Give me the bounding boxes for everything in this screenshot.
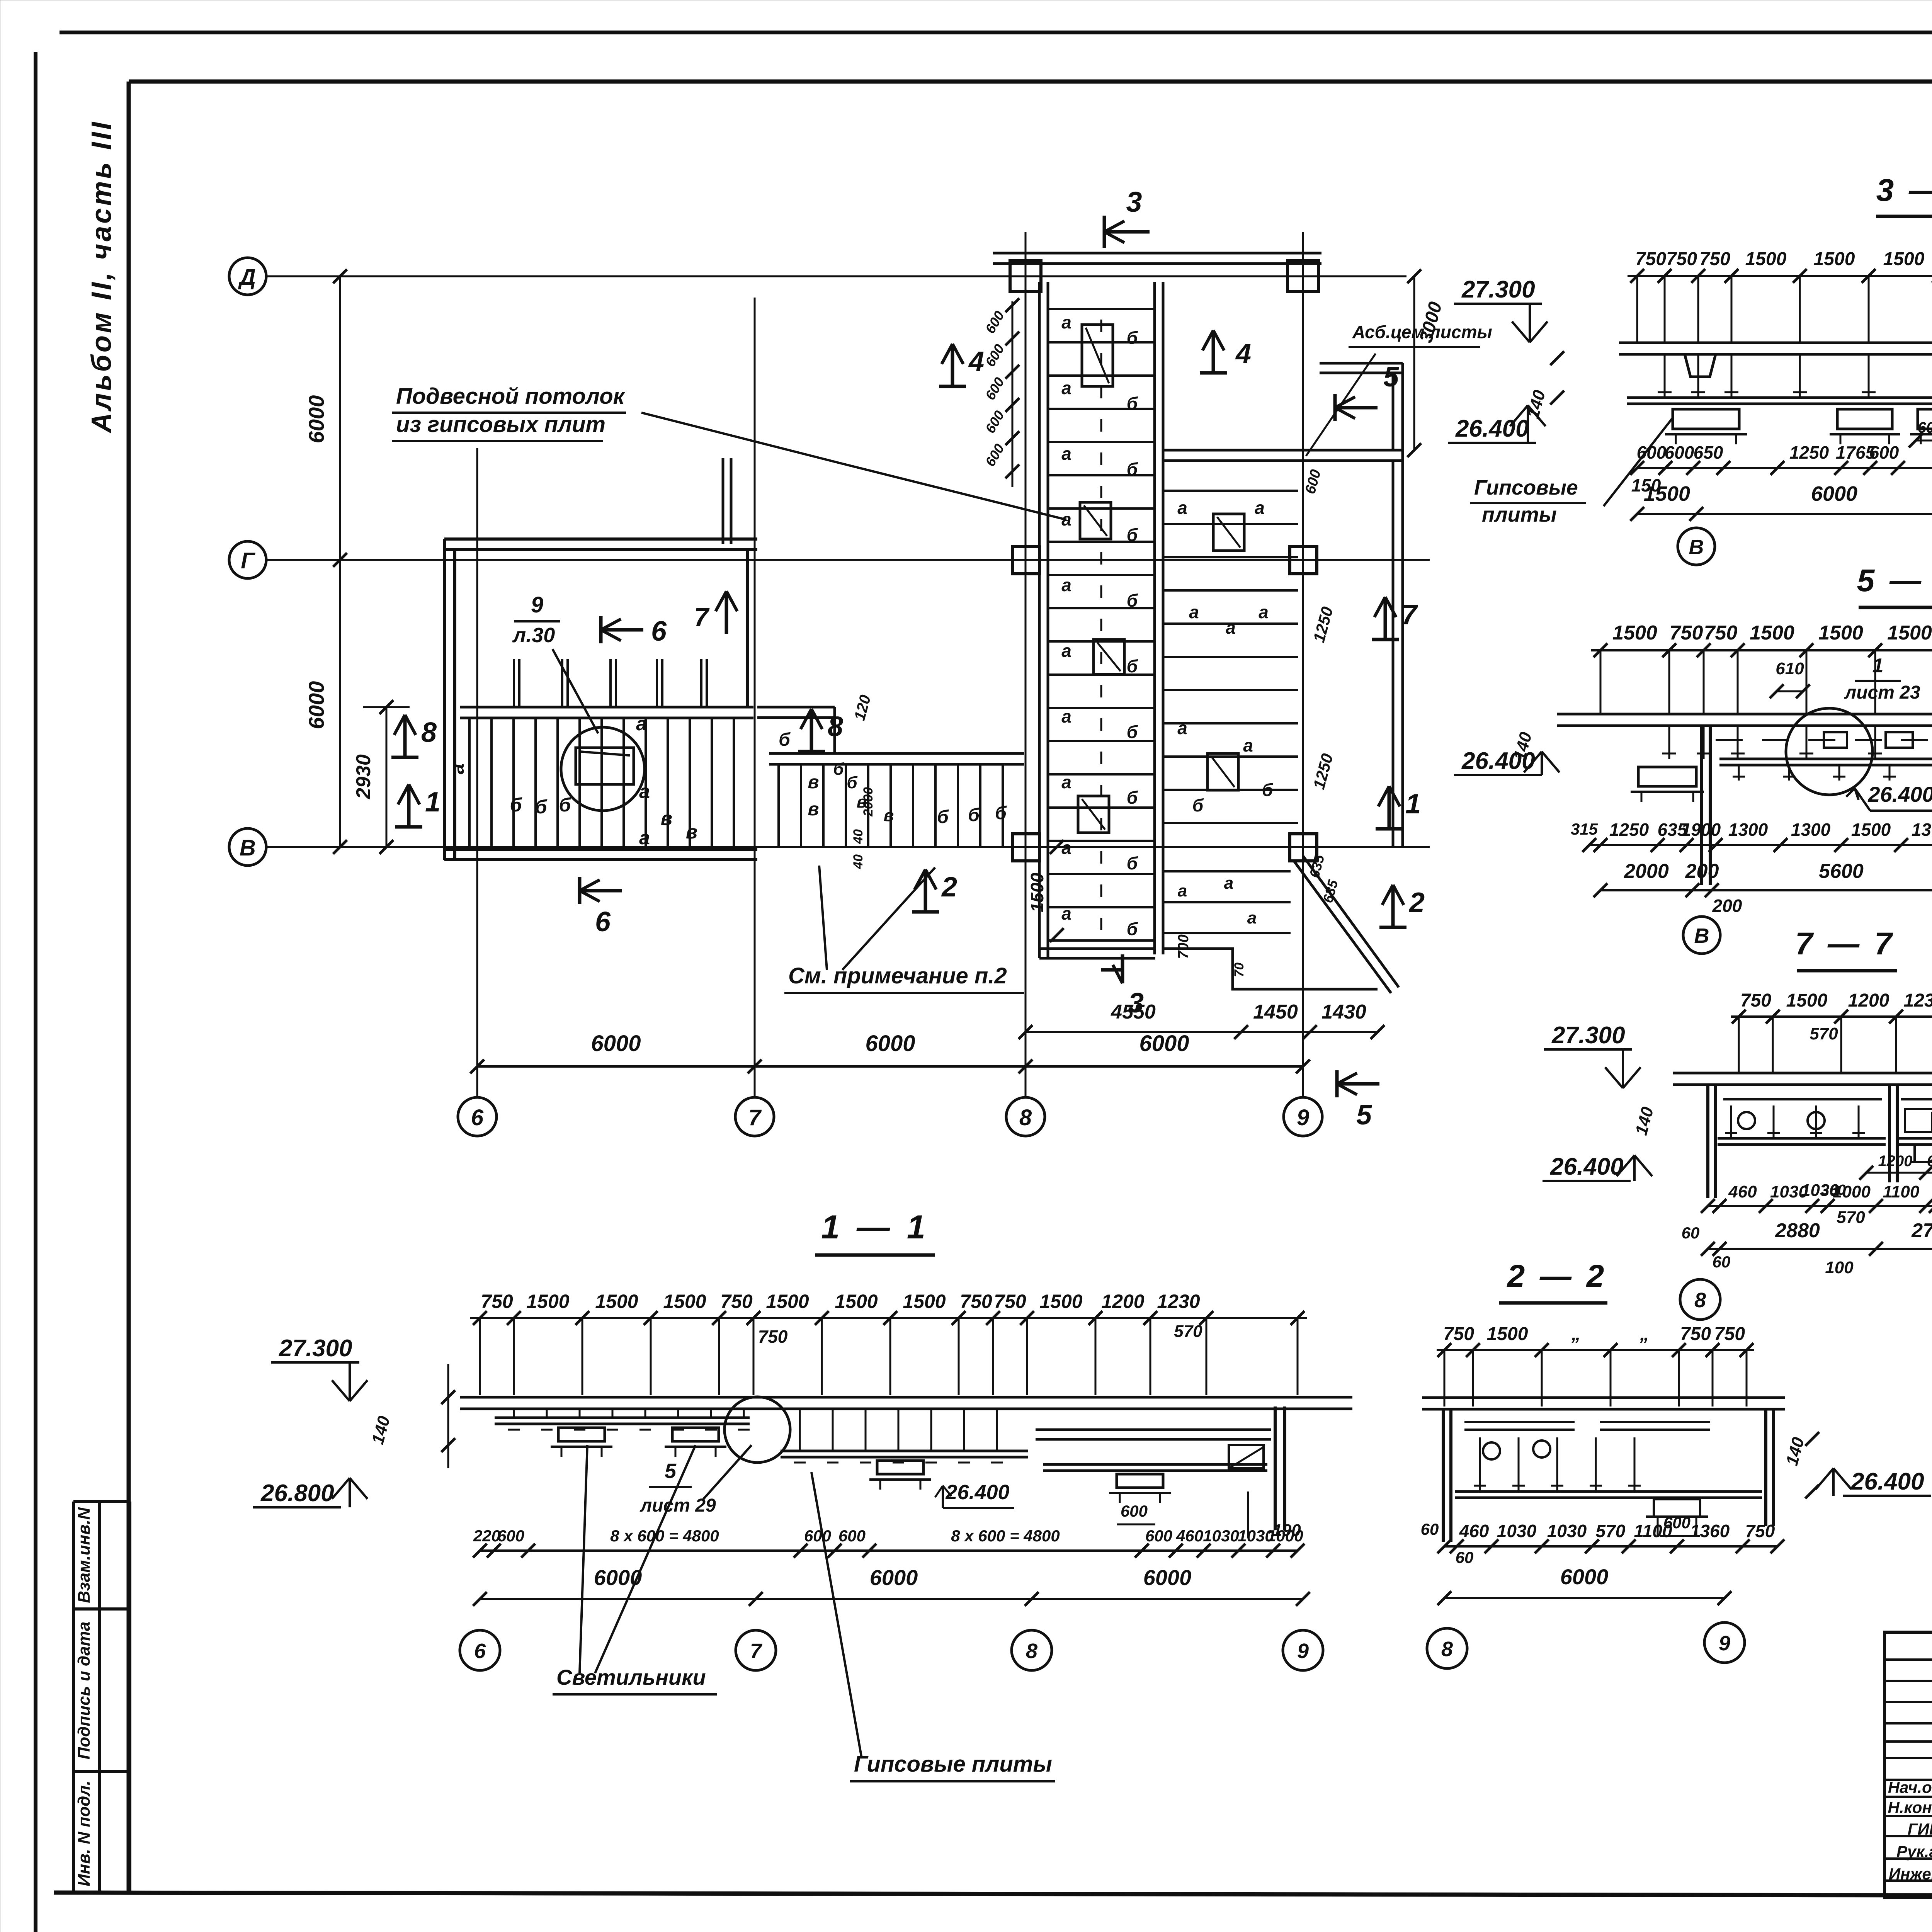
section 5-5 bottom chain 1 <box>1589 844 1932 846</box>
svg-text:Гипсовые плиты: Гипсовые плиты <box>854 1752 1052 1777</box>
middle band step wall <box>757 706 835 709</box>
svg-text:б: б <box>847 773 858 792</box>
section 3-3 top dim chain <box>1628 275 1932 277</box>
svg-text:а: а <box>1061 378 1071 398</box>
section 5-5 dim 610 <box>1777 690 1803 692</box>
svg-text:1230: 1230 <box>1904 990 1932 1011</box>
svg-text:В: В <box>1689 536 1704 559</box>
svg-text:26.400: 26.400 <box>1867 782 1932 806</box>
svg-text:3: 3 <box>1126 186 1142 218</box>
svg-text:а: а <box>1061 903 1071 923</box>
svg-text:а: а <box>1177 498 1187 518</box>
svg-text:750: 750 <box>1443 1324 1474 1344</box>
section 7-7 left wall <box>1706 1085 1709 1198</box>
svg-text:600: 600 <box>838 1527 866 1545</box>
svg-text:750: 750 <box>1704 622 1738 644</box>
axis circle 7 <box>735 1097 774 1136</box>
column at D8 <box>1010 261 1041 292</box>
svg-text:б: б <box>937 807 949 827</box>
svg-text:5: 5 <box>1383 362 1399 393</box>
svg-text:750: 750 <box>960 1291 992 1312</box>
svg-text:5600: 5600 <box>1819 860 1864 883</box>
svg-text:200: 200 <box>1712 896 1742 916</box>
svg-text:6000: 6000 <box>304 395 328 444</box>
svg-text:2: 2 <box>941 872 957 903</box>
section 5-5 upper ceiling dashed <box>1716 739 1743 741</box>
svg-text:1430: 1430 <box>1321 1001 1366 1023</box>
axis V line <box>266 846 1430 848</box>
left room ceiling band top lines <box>460 706 753 709</box>
svg-text:750: 750 <box>758 1327 788 1347</box>
section 3-3 bottom chain 2 <box>1637 513 1932 515</box>
svg-text:1500: 1500 <box>1851 820 1891 840</box>
svg-text:в: в <box>686 821 697 843</box>
svg-text:а: а <box>1061 312 1071 332</box>
svg-text:7: 7 <box>750 1639 763 1663</box>
section mark 4 left <box>939 385 966 388</box>
section mark 8 left <box>391 756 418 759</box>
svg-text:1200: 1200 <box>1848 990 1889 1011</box>
svg-text:а: а <box>1061 838 1071 858</box>
right strip ladder <box>1048 308 1155 310</box>
svg-text:а: а <box>639 781 650 802</box>
svg-text:Инженер: Инженер <box>1889 1865 1932 1883</box>
section 3-3 slab <box>1619 342 1932 344</box>
svg-text:1450: 1450 <box>1253 1001 1298 1023</box>
svg-text:а: а <box>1243 735 1253 755</box>
svg-text:5: 5 <box>1356 1100 1372 1131</box>
svg-text:460: 460 <box>1176 1527 1203 1545</box>
section mark 1 right <box>1376 827 1403 831</box>
svg-text:9: 9 <box>531 592 543 617</box>
column at V8 <box>1012 834 1039 861</box>
svg-text:7 — 7: 7 — 7 <box>1795 926 1895 961</box>
svg-text:а: а <box>1177 718 1187 738</box>
section 5-5 top boxes <box>1824 732 1847 748</box>
svg-text:27.300: 27.300 <box>279 1335 352 1362</box>
section 5-5 wall V <box>1700 726 1703 885</box>
svg-text:9: 9 <box>1297 1105 1309 1130</box>
plan bottom dim chain 6000x3 <box>477 1065 1303 1068</box>
svg-text:26.400: 26.400 <box>945 1481 1009 1504</box>
svg-text:700: 700 <box>1175 934 1192 959</box>
section 1-1 left vertical dim <box>447 1364 449 1468</box>
svg-text:Рук.гр.: Рук.гр. <box>1896 1842 1932 1861</box>
svg-text:600: 600 <box>1665 442 1694 463</box>
svg-text:9: 9 <box>1719 1632 1730 1655</box>
section 5-5 detail circle <box>1786 708 1872 795</box>
svg-text:360: 360 <box>1821 1182 1845 1198</box>
section 1-1 far right ceiling <box>1036 1429 1271 1431</box>
section 3-3 ceiling <box>1627 396 1932 399</box>
svg-text:1500: 1500 <box>835 1291 878 1312</box>
svg-text:27.300: 27.300 <box>1551 1022 1625 1049</box>
svg-text:9: 9 <box>1297 1639 1309 1663</box>
upper right step wall <box>1320 362 1403 365</box>
right strip left wall <box>1038 282 1041 958</box>
svg-text:600: 600 <box>1145 1527 1172 1545</box>
section 3-3 bottom chain 1 <box>1637 467 1932 469</box>
section 5-5 slab <box>1557 713 1932 716</box>
section 1-1 extension lines <box>479 1318 481 1395</box>
svg-text:1030: 1030 <box>1547 1521 1587 1541</box>
middle band top line <box>769 752 1024 755</box>
section 2-2 center fixture <box>1654 1499 1700 1517</box>
svg-text:1500: 1500 <box>1612 622 1657 644</box>
svg-text:б: б <box>535 796 548 818</box>
svg-text:750: 750 <box>1666 249 1697 269</box>
right room top wall <box>1163 449 1403 452</box>
svg-text:1500: 1500 <box>526 1291 569 1312</box>
section 1-1 left ceiling <box>495 1417 750 1419</box>
svg-text:ГИП: ГИП <box>1908 1820 1932 1838</box>
svg-text:Нач.отд.: Нач.отд. <box>1888 1778 1932 1796</box>
svg-text:3 — 3: 3 — 3 <box>1876 173 1932 208</box>
svg-text:570: 570 <box>1837 1208 1865 1227</box>
svg-text:60: 60 <box>1713 1253 1731 1271</box>
svg-text:6000: 6000 <box>1143 1565 1192 1590</box>
section 3-3 hangers <box>1664 354 1666 398</box>
axis 9 line <box>1302 232 1304 1097</box>
svg-text:60: 60 <box>1456 1548 1474 1566</box>
section 3-3 light boxes <box>1673 409 1739 429</box>
svg-text:6000: 6000 <box>1560 1565 1609 1589</box>
svg-text:в: в <box>808 799 819 820</box>
section 1-1 detail circle <box>724 1397 790 1463</box>
section mark 5 right <box>1333 394 1337 421</box>
section mark 8 mid <box>798 750 825 753</box>
svg-text:7: 7 <box>748 1105 762 1130</box>
svg-text:6000: 6000 <box>1811 482 1857 505</box>
svg-text:1500: 1500 <box>1745 249 1787 269</box>
svg-text:1300: 1300 <box>1728 820 1768 840</box>
leader to ceiling <box>641 413 842 464</box>
axis D line <box>266 276 1406 277</box>
section 2-2 ceiling <box>1455 1490 1762 1493</box>
section 7-7 mini dims 1200 600 <box>1866 1172 1932 1174</box>
section 1-1 right ceiling <box>781 1450 1028 1452</box>
svg-text:200: 200 <box>1685 860 1719 883</box>
svg-text:6: 6 <box>471 1105 484 1130</box>
svg-text:150: 150 <box>1631 475 1661 495</box>
svg-text:190: 190 <box>1272 1521 1301 1540</box>
right room fixtures <box>1213 514 1244 551</box>
column at G8 <box>1012 547 1039 574</box>
svg-text:1500: 1500 <box>1883 249 1925 269</box>
svg-text:1500: 1500 <box>1814 249 1855 269</box>
svg-text:2880: 2880 <box>1775 1219 1820 1242</box>
svg-text:7: 7 <box>694 602 710 632</box>
svg-text:27.300: 27.300 <box>1461 276 1535 303</box>
svg-text:1500: 1500 <box>1818 622 1863 644</box>
svg-text:б: б <box>833 760 844 779</box>
svg-text:2770: 2770 <box>1911 1219 1932 1242</box>
svg-text:750: 750 <box>1670 622 1703 644</box>
svg-text:Альбом II, часть III: Альбом II, часть III <box>86 120 117 434</box>
svg-text:в: в <box>661 808 672 829</box>
svg-text:6: 6 <box>595 906 611 937</box>
svg-text:б: б <box>1127 656 1138 676</box>
section 2-2 holes <box>1483 1442 1500 1459</box>
section 2-2 top dim chain <box>1437 1349 1754 1351</box>
svg-text:в: в <box>884 806 894 825</box>
svg-text:2930: 2930 <box>352 754 375 799</box>
section mark 3 bottom <box>1121 954 1124 983</box>
svg-text:1030: 1030 <box>1203 1527 1239 1545</box>
svg-text:б: б <box>1127 787 1138 808</box>
column at G9 <box>1290 547 1317 574</box>
svg-text:1: 1 <box>1872 655 1884 677</box>
svg-text:Гипсовые: Гипсовые <box>1474 476 1578 499</box>
svg-text:750: 750 <box>481 1291 513 1312</box>
axis 8 line <box>1025 232 1027 1097</box>
svg-text:6000: 6000 <box>304 681 328 730</box>
svg-text:8 х 600 = 4800: 8 х 600 = 4800 <box>610 1527 719 1545</box>
svg-text:1500: 1500 <box>595 1291 638 1312</box>
left room bottom wall on axis V <box>444 848 757 851</box>
svg-text:Асб.цем.листы: Асб.цем.листы <box>1352 322 1492 342</box>
section 5-5 bottom chain 2 <box>1600 889 1932 891</box>
svg-text:б: б <box>1262 780 1274 800</box>
section 7-7 hatch box <box>1915 1145 1932 1162</box>
svg-text:б: б <box>1192 795 1204 815</box>
svg-text:1500: 1500 <box>1027 872 1047 912</box>
svg-text:Инв. N подл.: Инв. N подл. <box>75 1781 94 1886</box>
section mark 6 upper <box>599 616 603 643</box>
svg-text:2 — 2: 2 — 2 <box>1507 1259 1607 1294</box>
svg-text:1360: 1360 <box>1690 1521 1730 1541</box>
drawing frame <box>127 82 131 1893</box>
svg-text:650: 650 <box>1694 442 1723 463</box>
section 7-7 slab <box>1673 1072 1932 1075</box>
axis G circle <box>229 541 266 578</box>
svg-text:1030: 1030 <box>1497 1521 1537 1541</box>
svg-text:1200: 1200 <box>1878 1153 1913 1170</box>
svg-text:Подвесной потолок: Подвесной потолок <box>396 384 626 409</box>
svg-text:б: б <box>510 794 523 816</box>
svg-text:570: 570 <box>1174 1322 1202 1341</box>
dim 3000 right <box>1413 276 1415 450</box>
svg-text:б: б <box>1127 328 1138 348</box>
svg-text:750: 750 <box>1699 249 1730 269</box>
left room joists <box>468 718 471 847</box>
svg-text:6: 6 <box>474 1639 486 1663</box>
svg-text:б: б <box>779 730 791 750</box>
svg-text:750: 750 <box>1740 990 1771 1011</box>
section 2-2 axis circles <box>1427 1628 1467 1668</box>
svg-text:750: 750 <box>1745 1521 1775 1541</box>
svg-text:1300: 1300 <box>1912 820 1932 840</box>
section 7-7 axis circles <box>1680 1279 1720 1320</box>
left room top wall <box>444 537 757 541</box>
svg-text:26.800: 26.800 <box>260 1480 334 1507</box>
section mark 3 top <box>1103 216 1106 248</box>
svg-text:8: 8 <box>1441 1638 1453 1661</box>
svg-text:600: 600 <box>1927 1153 1932 1170</box>
svg-text:100: 100 <box>1825 1258 1854 1277</box>
svg-text:8: 8 <box>421 717 437 748</box>
svg-text:а: а <box>1061 706 1071 726</box>
plan sub dim 4550 1450 1430 <box>1026 1031 1378 1033</box>
svg-text:л.30: л.30 <box>512 624 555 647</box>
svg-text:в: в <box>808 772 819 793</box>
svg-text:1: 1 <box>425 787 440 818</box>
svg-text:лист 23: лист 23 <box>1844 682 1920 703</box>
svg-text:600: 600 <box>1121 1502 1148 1520</box>
svg-text:„: „ <box>1571 1324 1581 1344</box>
svg-text:610: 610 <box>1776 659 1804 678</box>
svg-text:а: а <box>1178 881 1187 900</box>
svg-text:1500: 1500 <box>1786 990 1828 1011</box>
section 2-2 left wall <box>1442 1409 1445 1542</box>
section 5-5 axis circles <box>1683 917 1720 954</box>
svg-text:Г: Г <box>241 548 255 573</box>
600 dim column <box>1012 301 1014 487</box>
svg-text:40: 40 <box>851 829 866 844</box>
section 2-2 bottom chain <box>1444 1545 1777 1548</box>
svg-text:6000: 6000 <box>1139 1031 1189 1056</box>
svg-text:2000: 2000 <box>1624 860 1669 883</box>
svg-text:750: 750 <box>1680 1324 1711 1344</box>
svg-text:а: а <box>636 713 647 735</box>
svg-text:2000: 2000 <box>861 787 876 817</box>
svg-text:4: 4 <box>968 346 984 377</box>
middle band joists <box>777 764 780 847</box>
section 3-3 mini dim 600 600 <box>1916 440 1932 442</box>
right strip right wall <box>1153 282 1156 954</box>
section mark 4 right <box>1200 371 1227 375</box>
svg-text:плиты: плиты <box>1482 503 1557 526</box>
svg-text:а: а <box>1061 641 1071 661</box>
svg-text:а: а <box>1061 575 1071 595</box>
svg-text:1100: 1100 <box>1883 1182 1920 1201</box>
svg-text:2: 2 <box>1408 887 1425 918</box>
svg-text:В: В <box>240 835 256 861</box>
svg-text:1500: 1500 <box>903 1291 946 1312</box>
section 1-1 slab <box>460 1396 1352 1399</box>
svg-text:600: 600 <box>1918 419 1932 436</box>
svg-text:1500: 1500 <box>766 1291 809 1312</box>
svg-text:460: 460 <box>1459 1521 1489 1541</box>
svg-text:1230: 1230 <box>1157 1291 1200 1312</box>
svg-text:а: а <box>1255 498 1265 518</box>
svg-text:„: „ <box>1639 1324 1649 1344</box>
section mark 6 lower <box>578 877 582 904</box>
section 1-1 bottom chain 1 <box>480 1549 1298 1552</box>
axis V circle <box>229 828 266 866</box>
right strip hanger dashes <box>1100 320 1102 332</box>
svg-text:5 — 5: 5 — 5 <box>1857 563 1932 598</box>
svg-text:а: а <box>1061 444 1071 464</box>
svg-text:из гипсовых плит: из гипсовых плит <box>396 412 605 437</box>
svg-text:60: 60 <box>1682 1224 1700 1242</box>
svg-text:б: б <box>1127 919 1138 939</box>
section 2-2 chain 6000 <box>1444 1597 1725 1599</box>
svg-text:6: 6 <box>651 616 667 647</box>
left room right wall stub <box>746 549 749 707</box>
svg-text:6000: 6000 <box>865 1031 915 1056</box>
plan left dim 2930 <box>386 707 388 847</box>
section mark 1 left <box>395 825 422 829</box>
svg-text:1 — 1: 1 — 1 <box>821 1209 929 1246</box>
svg-text:Подпись и дата: Подпись и дата <box>75 1622 94 1760</box>
svg-text:6000: 6000 <box>870 1565 918 1590</box>
svg-text:См. примечание п.2: См. примечание п.2 <box>788 963 1007 988</box>
svg-text:4550: 4550 <box>1111 1001 1156 1023</box>
section mark 2 right <box>1379 926 1406 929</box>
svg-text:В: В <box>1694 924 1709 947</box>
section 3-3 extension lines <box>1636 276 1638 344</box>
svg-text:а: а <box>1224 874 1233 893</box>
section mark 5 bottom <box>1335 1070 1339 1097</box>
svg-text:1900: 1900 <box>1681 820 1721 840</box>
svg-text:1500: 1500 <box>1487 1324 1528 1344</box>
svg-text:б: б <box>995 803 1007 823</box>
section 2-2 slab <box>1422 1396 1785 1399</box>
svg-text:7: 7 <box>1401 599 1418 630</box>
svg-text:570: 570 <box>1596 1521 1626 1541</box>
svg-text:1250: 1250 <box>1609 820 1649 840</box>
svg-text:5: 5 <box>665 1459 677 1483</box>
svg-text:26.400: 26.400 <box>1550 1153 1624 1180</box>
left room top tail <box>722 458 724 544</box>
section 5-5 left fixture <box>1638 767 1696 786</box>
svg-text:б: б <box>1127 393 1138 413</box>
svg-text:а: а <box>446 764 468 774</box>
svg-text:460: 460 <box>1728 1182 1757 1201</box>
svg-text:б: б <box>968 805 980 825</box>
svg-text:1300: 1300 <box>1791 820 1831 840</box>
axis 6 line <box>476 448 478 1097</box>
svg-text:1100: 1100 <box>1634 1521 1672 1541</box>
section 7-7 right ceiling <box>1901 1098 1932 1100</box>
section 1-1 top dim chain <box>470 1317 1307 1319</box>
sheet outer border top <box>60 31 1932 34</box>
plan left vertical dim 6000x2 <box>339 276 341 847</box>
svg-text:750: 750 <box>1635 249 1666 269</box>
svg-text:26.400: 26.400 <box>1455 415 1529 442</box>
svg-text:8: 8 <box>1019 1105 1032 1130</box>
svg-text:70: 70 <box>1232 963 1247 977</box>
column at D9 <box>1287 261 1318 292</box>
lower right outline <box>1163 856 1378 989</box>
svg-text:600: 600 <box>804 1527 831 1545</box>
lower ladder <box>1163 870 1291 872</box>
svg-text:220: 220 <box>473 1527 500 1545</box>
left room hangers above band <box>513 659 515 707</box>
svg-text:1: 1 <box>1405 789 1421 820</box>
sheet outer border left <box>34 52 37 1932</box>
section 7-7 bottom chain 2 <box>1708 1248 1932 1250</box>
svg-text:750: 750 <box>1714 1324 1745 1344</box>
staff table outline <box>1884 1632 1932 1898</box>
svg-text:6000: 6000 <box>591 1031 641 1056</box>
svg-text:б: б <box>1127 853 1138 873</box>
svg-text:Д: Д <box>238 265 256 290</box>
svg-text:1500: 1500 <box>663 1291 706 1312</box>
axis circle 6 <box>458 1097 497 1136</box>
svg-text:а: а <box>1189 602 1199 622</box>
svg-text:40: 40 <box>851 854 866 869</box>
svg-text:750: 750 <box>720 1291 753 1312</box>
section 2-2 upper rails <box>1464 1421 1575 1423</box>
svg-text:а: а <box>1259 602 1269 622</box>
section 7-7 holes <box>1738 1112 1755 1129</box>
axis G line <box>266 559 1430 561</box>
svg-text:570: 570 <box>1810 1024 1838 1043</box>
svg-text:1500: 1500 <box>1750 622 1794 644</box>
svg-text:8: 8 <box>828 711 843 742</box>
